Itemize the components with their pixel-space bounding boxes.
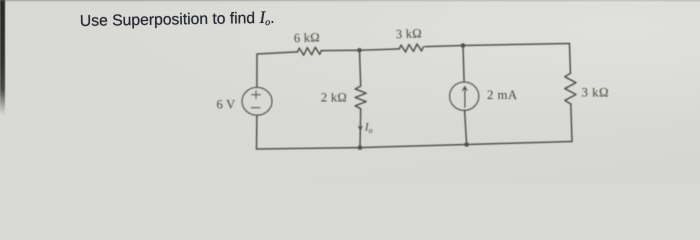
wire current-source branch upper xyxy=(463,46,464,83)
svg-text:6 kΩ: 6 kΩ xyxy=(294,30,321,45)
wire top segment to node B xyxy=(425,46,463,47)
resistor R3 2 kOhm (vertical, middle) xyxy=(355,86,366,109)
current source arrow (up) xyxy=(464,91,466,108)
junction dot bottom current-source node xyxy=(464,142,469,147)
wire middle branch lower with current arrow xyxy=(359,109,362,148)
node B junction dot (top, current source branch) xyxy=(461,43,466,48)
wire current-source branch lower xyxy=(465,110,467,144)
current arrow Io (arrowhead, pointing down) xyxy=(358,125,363,131)
voltage source plus sign xyxy=(252,91,260,99)
resistor R4 3 kOhm (vertical, right) xyxy=(565,73,576,104)
voltage source minus sign xyxy=(251,107,260,109)
title text xyxy=(80,7,275,31)
wire left branch upper xyxy=(256,54,258,87)
current source I1 2 mA circle xyxy=(450,82,479,110)
left dark edge bar xyxy=(0,0,5,115)
wire right branch upper xyxy=(569,44,572,74)
node A junction dot (top middle) xyxy=(357,48,362,53)
wire bottom rail xyxy=(257,142,573,150)
svg-text:Io: Io xyxy=(364,121,373,135)
wire top-left horizontal segment xyxy=(257,52,298,54)
svg-text:3 kΩ: 3 kΩ xyxy=(396,26,423,41)
junction dot bottom middle node xyxy=(358,145,363,150)
wire right branch lower xyxy=(571,104,572,142)
wire top middle segment xyxy=(321,49,359,51)
wire middle branch upper xyxy=(360,50,361,86)
svg-text:6 V: 6 V xyxy=(216,98,235,112)
wire top-right segment xyxy=(463,44,570,46)
svg-text:2 mA: 2 mA xyxy=(487,88,518,102)
resistor R1 6 kOhm (horizontal, top-left) xyxy=(297,47,321,56)
voltage source V1 6 V circle xyxy=(242,87,272,115)
svg-text:2 kΩ: 2 kΩ xyxy=(321,90,347,104)
wire top segment to R2 xyxy=(360,49,400,50)
resistor R2 3 kOhm (horizontal, top-right) xyxy=(399,44,423,53)
svg-text:3 kΩ: 3 kΩ xyxy=(582,86,610,100)
wire left branch lower xyxy=(256,115,258,149)
